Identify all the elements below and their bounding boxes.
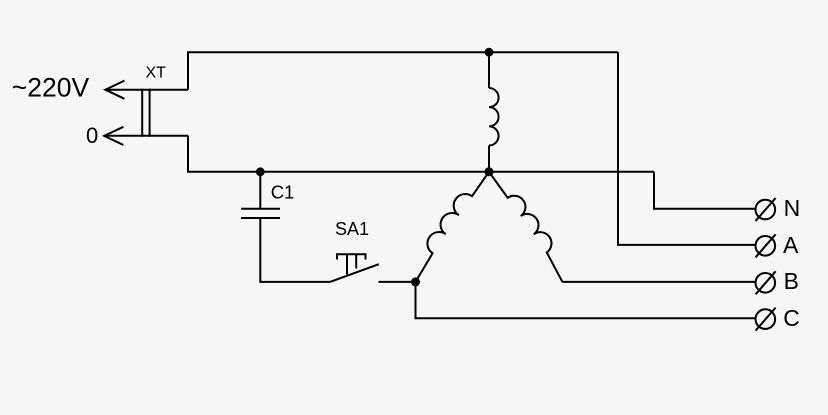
switch SA1 actuator [337, 254, 366, 274]
svg-text:XT: XT [146, 65, 167, 82]
svg-text:0: 0 [86, 123, 98, 148]
junction dot switch node [411, 277, 420, 286]
wire mid rail [188, 136, 654, 172]
wire right vertical to A [618, 52, 755, 245]
switch SA1 blade [330, 264, 379, 282]
junction dot star point [485, 167, 494, 176]
capacitor C1 plate bottom [241, 217, 280, 219]
terminal N circle [756, 198, 776, 221]
svg-text:C: C [783, 305, 800, 331]
wire top rail [188, 52, 618, 89]
arrow upper [105, 81, 124, 99]
wire vertical to N [654, 172, 755, 209]
svg-text:A: A [783, 232, 799, 258]
junction dot top [485, 48, 494, 57]
wire coil drop [488, 52, 490, 88]
wire B rail [562, 281, 754, 283]
inductor right delta winding [489, 172, 562, 282]
svg-text:N: N [784, 195, 801, 221]
terminal C circle [756, 308, 776, 331]
terminal XT bars [141, 89, 143, 137]
terminal B circle [756, 271, 776, 294]
wire coil to star point [488, 146, 490, 172]
inductor L top winding [489, 88, 499, 146]
inductor left delta winding [416, 172, 490, 282]
arrow lower [104, 127, 123, 145]
wire node to C rail [416, 282, 755, 318]
wire C1 drop [259, 172, 261, 208]
svg-text:SA1: SA1 [335, 219, 369, 239]
junction dot C1 tap [256, 167, 265, 176]
capacitor C1 plate top [241, 208, 280, 210]
svg-text:B: B [784, 268, 799, 294]
wire lower XT lead [104, 135, 188, 137]
wire switch to node [379, 281, 416, 283]
svg-text:~220V: ~220V [12, 73, 90, 103]
wire upper XT lead [106, 89, 189, 91]
svg-text:C1: C1 [271, 181, 295, 202]
wire C1 to switch [260, 219, 330, 282]
terminal A circle [756, 234, 776, 257]
